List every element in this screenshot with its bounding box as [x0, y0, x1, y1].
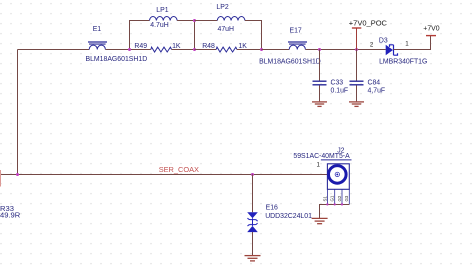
- svg-text:C33: C33: [331, 80, 344, 87]
- TVS diode E16 (bidirectional): [247, 212, 258, 232]
- resistor R49: [151, 47, 172, 52]
- wire: rail R49 to node B: [172, 49, 195, 51]
- svg-text:1: 1: [405, 41, 409, 48]
- svg-text:0.1uF: 0.1uF: [331, 88, 349, 95]
- svg-text:+7V0: +7V0: [423, 26, 439, 33]
- wire: main rail left segment from corner to E1: [18, 49, 90, 51]
- wire: rail R48 to node C: [237, 49, 262, 51]
- svg-text:49.9R: 49.9R: [0, 211, 21, 220]
- wire: LP1 branch left vertical and top: [130, 21, 150, 50]
- svg-text:47uH: 47uH: [218, 26, 234, 33]
- wire: rail node B to R48: [195, 49, 217, 51]
- wire: node B vertical connecting top branch to rail: [194, 21, 196, 50]
- svg-text:E17: E17: [290, 27, 302, 34]
- node C junction dot on rail: [260, 48, 263, 51]
- svg-text:G3: G3: [344, 195, 349, 201]
- wire: E16 tap vertical: [252, 175, 254, 213]
- wire: rail E1 to node A: [105, 49, 129, 51]
- wire: rail C84 node to D3 anode: [357, 49, 386, 51]
- svg-text:+7V0_POC: +7V0_POC: [349, 19, 388, 28]
- wire: LP2 top right segment and right vertical down to rail: [245, 21, 262, 50]
- svg-text:E1: E1: [93, 26, 102, 33]
- wire: rail node A to R49: [130, 49, 151, 51]
- svg-text:UDD32C24L01: UDD32C24L01: [265, 213, 312, 220]
- connector J2 body: [327, 164, 349, 190]
- ferrite bead E17: [288, 42, 307, 50]
- wire: LP1 top right segment to node B top: [177, 20, 194, 22]
- power symbol +7V0_POC: [352, 27, 361, 29]
- wire: E16 to ground: [252, 232, 254, 255]
- wire: rail C33 node to C84 node: [320, 49, 357, 51]
- svg-text:4.7uH: 4.7uH: [150, 22, 168, 29]
- ground below C84: [349, 102, 364, 107]
- svg-text:S1: S1: [322, 196, 327, 202]
- underline under J2 value: [321, 159, 352, 161]
- svg-text:4,7uF: 4,7uF: [368, 88, 386, 95]
- wire: SER_COAX horizontal net from left edge to J2 pin 1: [0, 174, 327, 176]
- wire: D3 cathode to +7V0: [393, 36, 430, 50]
- inductor LP1: [150, 17, 178, 21]
- svg-text:C84: C84: [368, 79, 381, 86]
- wire: left vertical from rail corner down to SER_COAX: [17, 50, 19, 175]
- capacitor C84: [356, 50, 358, 81]
- wire: J2 ground bus: [320, 205, 350, 219]
- svg-text:D3: D3: [379, 38, 388, 45]
- svg-text:R48: R48: [202, 43, 215, 50]
- svg-text:LP1: LP1: [156, 7, 168, 14]
- svg-text:G1: G1: [330, 195, 335, 201]
- svg-text:G2: G2: [337, 195, 342, 201]
- wire: rail node C to E17: [262, 49, 290, 51]
- svg-text:59S1AC-40MT5-A: 59S1AC-40MT5-A: [293, 153, 350, 160]
- svg-text:1K: 1K: [172, 43, 181, 50]
- node junction dot at C33: [318, 48, 321, 51]
- diode D3 (schottky): [386, 45, 393, 55]
- J2 ground pin stubs: [327, 189, 349, 204]
- svg-text:BLM18AG601SH1D: BLM18AG601SH1D: [259, 58, 321, 65]
- svg-text:2: 2: [370, 41, 374, 48]
- J2 coax circle symbol: [329, 166, 347, 184]
- svg-text:BLM18AG601SH1D: BLM18AG601SH1D: [86, 56, 148, 63]
- inductor LP2: [217, 17, 245, 21]
- svg-text:SER_COAX: SER_COAX: [159, 165, 199, 174]
- power symbol +7V0: [426, 35, 436, 37]
- node B junction dot on rail: [193, 48, 196, 51]
- node junction dot at C84 / +7V0_POC: [355, 48, 358, 51]
- junction dots on J2 ground bus: [326, 203, 328, 205]
- capacitor C33: [319, 50, 321, 81]
- junction dot on SER_COAX at E16 tap: [251, 173, 254, 176]
- wire: LP2 branch top left segment: [195, 20, 218, 22]
- node B top junction dot: [193, 19, 196, 22]
- svg-text:LP2: LP2: [216, 4, 228, 11]
- wire: rail E17 to C33 node: [305, 49, 319, 51]
- ground below C33: [312, 102, 327, 107]
- resistor R48: [216, 47, 237, 52]
- svg-text:R49: R49: [134, 43, 147, 50]
- ground below J2: [312, 218, 328, 223]
- ferrite bead E1: [88, 42, 107, 50]
- svg-text:E16: E16: [266, 204, 278, 211]
- resistor R33 stub at left edge: [0, 170, 2, 187]
- node A junction dot on rail: [128, 48, 131, 51]
- ground below E16: [245, 256, 261, 261]
- svg-text:1: 1: [317, 162, 321, 169]
- svg-text:1K: 1K: [238, 43, 247, 50]
- svg-text:LMBR340FT1G: LMBR340FT1G: [379, 59, 427, 66]
- junction dot on SER_COAX at left vertical: [16, 173, 19, 176]
